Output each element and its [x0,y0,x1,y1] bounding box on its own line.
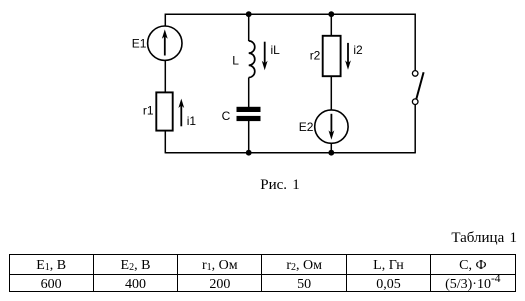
svg-text:E1: E1 [132,37,147,51]
svg-text:r2: r2 [310,48,321,62]
svg-text:E2: E2 [299,120,314,134]
svg-text:i2: i2 [353,43,363,57]
svg-text:C: C [222,109,231,123]
svg-text:r1: r1 [143,104,154,118]
svg-text:i1: i1 [187,114,197,128]
svg-text:L: L [232,54,239,68]
svg-text:iL: iL [271,43,281,57]
